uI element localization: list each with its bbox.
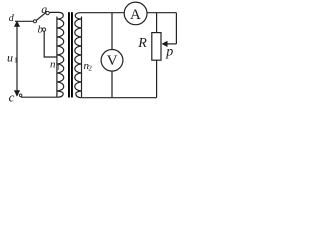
svg-text:1: 1 (14, 55, 18, 64)
svg-text:a: a (41, 2, 47, 16)
svg-text:n: n (50, 59, 56, 71)
svg-text:p: p (165, 45, 173, 60)
svg-text:b: b (38, 23, 44, 35)
svg-text:d: d (9, 13, 15, 24)
svg-text:R: R (137, 36, 147, 51)
svg-text:c: c (9, 89, 15, 104)
svg-text:2: 2 (88, 64, 92, 73)
svg-text:1: 1 (56, 63, 60, 72)
svg-text:u: u (7, 50, 13, 64)
svg-text:V: V (107, 53, 118, 69)
svg-text:A: A (130, 7, 141, 23)
